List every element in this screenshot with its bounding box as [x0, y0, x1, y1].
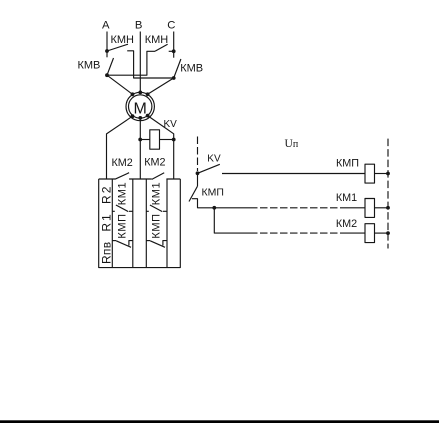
svg-text:КМН: КМН: [145, 34, 169, 46]
junction KV/rail: [196, 171, 200, 175]
svg-text:Uп: Uп: [285, 138, 299, 150]
junction A2: [105, 73, 109, 77]
contact KM1 column1 blade: [116, 205, 128, 212]
contact KMB left blade: [107, 58, 114, 75]
wire row1: [222, 173, 365, 175]
contact KM2 right blade: [152, 173, 164, 180]
wire row3 right link: [375, 232, 389, 234]
wire phase B: [139, 32, 141, 93]
resistor box top edge segments: [99, 178, 181, 180]
junction A1: [105, 49, 109, 53]
wire C stub: [173, 51, 175, 57]
wire row2 right link: [375, 207, 389, 209]
junction rotor right / KV: [172, 138, 176, 142]
wire C fixed tick: [169, 50, 174, 52]
motor M1: [126, 92, 154, 120]
svg-text:КМ1: КМ1: [151, 182, 163, 206]
contact KMP column2 tick: [146, 240, 150, 242]
relay contact KV blade: [198, 164, 220, 173]
svg-text:R1: R1: [100, 212, 114, 231]
contact KM2 left blade: [115, 173, 129, 180]
svg-text:Rпв: Rпв: [100, 242, 114, 264]
wire KV left lead: [140, 139, 150, 141]
contact KMP rail seat and corner wire: [192, 199, 250, 208]
svg-text:КМН: КМН: [110, 34, 134, 46]
svg-text:A: A: [102, 19, 110, 31]
wire phase A: [106, 32, 108, 52]
contact KMP column2 seat hook: [163, 241, 167, 246]
contact KM1 column2 ticks: [146, 210, 167, 212]
svg-text:КМ1: КМ1: [117, 182, 129, 206]
svg-text:КМ2: КМ2: [336, 218, 357, 230]
wire rotor middle: [139, 118, 141, 179]
junction C2: [172, 76, 176, 80]
svg-text:R2: R2: [100, 185, 114, 204]
coil KMP: [365, 164, 375, 183]
svg-text:M: M: [134, 100, 147, 117]
wire row3 solid to coil: [341, 232, 365, 234]
contact KMP column1 seat hook: [129, 241, 133, 246]
svg-text:КМВ: КМВ: [77, 59, 100, 71]
wire to motor stator right: [148, 78, 174, 94]
svg-text:КМП: КМП: [151, 213, 163, 238]
junction rotor mid / KV: [138, 138, 142, 142]
wire A stub: [106, 51, 108, 57]
motor rotor terminals: [131, 114, 135, 118]
svg-text:C: C: [167, 19, 175, 31]
wire phase C: [173, 32, 175, 52]
contact KMP column1 blade: [116, 241, 131, 248]
wire row3 dashed: [250, 232, 341, 234]
contact KMP rail stub: [197, 173, 199, 186]
relay coil KV: [150, 130, 160, 149]
right control rail (dashed): [387, 139, 389, 249]
wire drop row2 to row3: [214, 208, 250, 233]
junction row2: [212, 206, 216, 210]
contact KMH left blade: [107, 44, 128, 51]
wire row2 solid to coil: [341, 207, 365, 209]
svg-text:KV: KV: [164, 119, 178, 130]
wire KMH right output (cross to A side): [107, 51, 155, 75]
junction C1: [172, 49, 176, 53]
resistor box outline: [99, 179, 181, 268]
resistor column divider 1: [111, 179, 113, 268]
left control rail (dashed): [197, 137, 199, 172]
junction right rail row3: [386, 231, 390, 235]
svg-text:КМ2: КМ2: [111, 157, 132, 169]
contact KM1 column2 blade: [150, 205, 162, 212]
svg-text:КМ2: КМ2: [144, 157, 165, 169]
page footer rule: [0, 420, 439, 423]
junction right rail row2: [386, 206, 390, 210]
contact KMP column2 blade: [150, 241, 165, 248]
svg-text:КМП: КМП: [336, 158, 359, 170]
resistor column divider 2: [132, 179, 134, 268]
contact KMP column1 tick: [112, 240, 116, 242]
coil KM2: [365, 224, 375, 243]
wire to motor stator left: [107, 75, 133, 94]
resistor column divider 4: [166, 179, 168, 268]
contact KMH right blade: [155, 44, 168, 51]
wire row1 right link: [375, 173, 389, 175]
wire row2 dashed: [250, 207, 341, 209]
contact KM1 column1 ticks: [112, 210, 133, 212]
resistor column divider 3: [145, 179, 147, 268]
wire KMH left output (cross to C side): [127, 51, 174, 78]
svg-text:KV: KV: [207, 153, 221, 164]
svg-text:КМ1: КМ1: [336, 192, 357, 204]
svg-text:КМП: КМП: [202, 187, 224, 199]
contact KMB right blade: [174, 59, 181, 78]
wire rotor left: [107, 116, 133, 179]
svg-text:КМП: КМП: [117, 213, 129, 238]
wire rotor right: [148, 116, 174, 180]
coil KM1: [365, 199, 375, 218]
svg-text:КМВ: КМВ: [180, 62, 203, 74]
svg-text:B: B: [135, 19, 143, 31]
contact KMP rail blade: [189, 186, 198, 201]
junction right rail row1: [386, 172, 390, 176]
wire KV right lead: [160, 139, 174, 141]
motor stator terminals: [131, 92, 135, 96]
